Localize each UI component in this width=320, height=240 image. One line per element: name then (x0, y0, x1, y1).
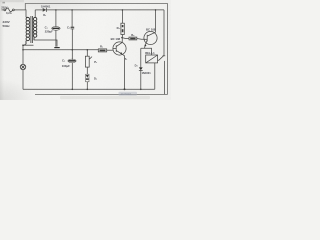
node top rail C3 (71, 9, 73, 11)
diode D1 (43, 8, 47, 12)
wire primary top (24, 10, 27, 17)
capacitor C1 (52, 27, 61, 31)
wire stub (23, 44, 34, 46)
wire to R4 (122, 37, 129, 40)
node top rail C1 (55, 9, 57, 11)
label P1 (94, 60, 98, 64)
node bar (54, 47, 59, 48)
node base bus P1 (87, 49, 89, 51)
wire R1 to base (107, 49, 113, 51)
transformer TR1 primary (26, 17, 30, 44)
wire relay to rail (154, 63, 156, 89)
wire collector T1 (121, 35, 123, 43)
wire secondary top to rail (34, 10, 36, 18)
label 230V~ fuse rating (1, 5, 12, 15)
label R4 (131, 33, 135, 37)
label R1 (100, 45, 104, 49)
capacitor C3 (71, 27, 75, 29)
node top rail R3 (122, 9, 124, 11)
transistor T1 (113, 42, 126, 55)
label BC108 T2 (146, 28, 156, 32)
diode D3 freewheel (139, 48, 143, 89)
label 1N4001 D1 (41, 4, 51, 17)
label C3 (67, 25, 71, 29)
label BC108 T1 (111, 37, 121, 41)
capacitor C2 (68, 59, 76, 63)
label D2 (94, 76, 98, 80)
node rail D3 (140, 89, 142, 91)
node rail C2 (72, 89, 74, 91)
wire base bus (23, 49, 98, 51)
label relay (145, 51, 155, 55)
node rail D2 (87, 89, 89, 91)
relay RE1 (146, 55, 158, 63)
node lamp line lower (22, 49, 24, 51)
label R3 (117, 26, 121, 30)
wire C3 branch (71, 10, 73, 27)
switch contact (158, 10, 166, 95)
wire P1 branch (86, 50, 88, 56)
wire C2 branch (71, 50, 73, 60)
wire R3 top (121, 10, 123, 23)
node lamp line upper (22, 44, 24, 46)
label 1N4001 D3 (135, 63, 152, 74)
transformer TR1 secondary (33, 17, 36, 40)
fuse F1 (2, 8, 26, 11)
wire C1 branch (55, 10, 57, 27)
transformer TR1 core (30, 16, 32, 43)
wire ground rail (23, 88, 155, 90)
resistor R1 (98, 49, 106, 52)
node rail T1 (124, 88, 126, 90)
wire secondary bottom (34, 39, 57, 47)
node collector junction (121, 37, 123, 39)
transistor T2 (144, 31, 157, 47)
label C1 value (45, 25, 53, 33)
resistor R4 (129, 37, 137, 40)
label C2 value (62, 58, 70, 68)
node top rail T2 (155, 9, 157, 11)
lamp load (20, 42, 26, 89)
node base bus C2 (72, 49, 74, 51)
potentiometer P1 (85, 56, 92, 67)
wire collector T2 (155, 10, 157, 33)
wire mains top border (25, 4, 167, 95)
wire emitter node (141, 47, 145, 48)
wire R4 to base T2 (137, 38, 144, 41)
label mains voltage (3, 20, 11, 28)
diode D2 ldr branch (86, 74, 89, 82)
resistor R3 (121, 23, 124, 34)
wire dc top rail (35, 9, 43, 11)
wire emitter T1 to rail (122, 54, 124, 89)
